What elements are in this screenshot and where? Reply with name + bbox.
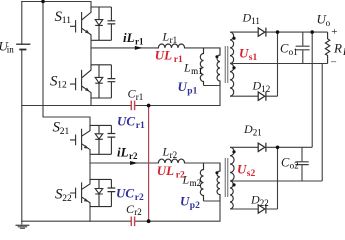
node D21 cathode junction [276, 146, 280, 150]
ground [16, 221, 30, 228]
node iLr2 current arrow [130, 161, 138, 165]
transformer T1 [200, 32, 235, 105]
T2 core [225, 158, 227, 197]
node at bottom rail [147, 219, 151, 223]
T1 core [225, 46, 227, 83]
svg-text:12: 12 [57, 81, 67, 91]
svg-text:m2: m2 [190, 178, 202, 188]
svg-text:U: U [237, 162, 247, 177]
wire ct2 rail [230, 180, 322, 182]
svg-text:+: + [331, 26, 337, 38]
wire Uin rail upper [21, 2, 23, 45]
svg-text:UL: UL [155, 48, 172, 63]
battery Uin [16, 44, 30, 49]
switch cell S21 [70, 125, 115, 154]
switch cell S22 [70, 179, 115, 206]
svg-text:D: D [242, 11, 252, 25]
diode D12 [258, 92, 266, 101]
svg-text:D: D [243, 122, 253, 136]
wire D11 anode [230, 31, 258, 33]
svg-text:p2: p2 [190, 201, 200, 211]
svg-text:r1: r1 [136, 92, 144, 102]
wire iLr2 [90, 162, 220, 164]
svg-text:r2: r2 [134, 207, 142, 217]
transistor Q S21 IGBT [70, 125, 90, 154]
svg-text:22: 22 [260, 198, 269, 208]
svg-text:L: L [162, 30, 170, 44]
svg-text:r1: r1 [170, 35, 178, 45]
wire D12 anode [230, 95, 258, 97]
svg-text:L: L [162, 145, 170, 159]
transformer T2 [200, 147, 235, 221]
svg-text:11: 11 [251, 16, 260, 26]
T2 secondary winding [230, 147, 234, 209]
svg-text:UL: UL [157, 163, 174, 178]
wire Cr1 return wire [22, 105, 220, 107]
switch cell S11 [70, 7, 115, 40]
svg-text:in: in [7, 45, 15, 55]
wire Lm2 bottom / primary return [204, 201, 221, 221]
transistor Q S11 IGBT [70, 7, 91, 40]
T1 secondary winding [230, 32, 234, 96]
svg-text:U: U [239, 46, 249, 61]
wire D11 cathode to load [266, 31, 328, 33]
svg-text:s2: s2 [247, 169, 256, 179]
inductor Lm2 [200, 163, 203, 201]
node iLr1 current arrow [135, 46, 143, 50]
wire Lm1 bottom / primary return [204, 86, 221, 106]
node T1 secondary dot lower [232, 66, 235, 69]
wire Uin rail lower [21, 50, 23, 222]
node T1 primary polarity dot [215, 55, 218, 58]
node D11 cathode junction [276, 30, 280, 34]
svg-text:r1: r1 [135, 36, 144, 46]
wire D21 cathode [266, 146, 312, 148]
capacitor Co1 [302, 32, 304, 63]
inductor Lm1 [200, 48, 203, 86]
svg-text:D: D [250, 193, 260, 207]
wire ct1 / Uo- rail [230, 63, 328, 65]
wire S12 to Cr1 wire [90, 98, 92, 106]
svg-text:12: 12 [261, 84, 270, 94]
node at Cr1 wire [147, 104, 151, 108]
node T2 secondary dot lower [232, 183, 235, 186]
svg-text:UC: UC [116, 186, 134, 201]
wire S21-S22 midpoint [89, 154, 91, 179]
svg-text:r2: r2 [129, 151, 138, 161]
wire red link Cr1-node to bottom rail [148, 106, 150, 222]
svg-text:UC: UC [117, 114, 135, 129]
wire top rail bridge1 [22, 2, 91, 8]
svg-text:iL: iL [123, 30, 135, 45]
svg-text:R: R [333, 40, 342, 55]
svg-text:r1: r1 [136, 121, 145, 131]
svg-text:s1: s1 [249, 53, 258, 63]
svg-text:L: L [183, 61, 191, 75]
svg-text:r2: r2 [135, 193, 144, 203]
svg-text:o: o [326, 18, 331, 28]
svg-text:m1: m1 [191, 66, 203, 76]
node T2 primary polarity dot [215, 171, 218, 174]
T1 primary winding [217, 48, 220, 86]
svg-text:L: L [182, 173, 190, 187]
capacitor Cr2 (red plates) [131, 217, 134, 227]
diode D21 [258, 143, 266, 152]
transistor Q S22 IGBT [70, 179, 90, 206]
switch cell S12 [70, 65, 115, 98]
wire S22 to bottom rail [89, 207, 91, 222]
inductor Lr1 [158, 44, 184, 48]
svg-text:21: 21 [253, 127, 262, 137]
capacitor Co2 [301, 147, 303, 181]
node Uo+ junction [310, 30, 314, 34]
svg-text:o2: o2 [290, 161, 299, 171]
resistor RL [325, 32, 329, 63]
wire D12 cathode bus up to D11 [266, 32, 278, 96]
svg-text:o1: o1 [289, 47, 298, 57]
wire Uo+ bus down to D21 node [311, 32, 313, 147]
transistor Q S12 IGBT [70, 65, 91, 98]
svg-text:11: 11 [62, 16, 71, 26]
diode D11 [258, 28, 266, 37]
svg-text:21: 21 [60, 127, 70, 137]
inductor Lr2 [158, 159, 184, 163]
wire parallel feed to bridge2 [43, 2, 90, 126]
wire D21 anode [230, 146, 258, 148]
output rectifier section [230, 28, 330, 214]
node top-left rail junction [41, 0, 45, 3]
svg-text:r1: r1 [174, 55, 183, 65]
svg-text:iL: iL [117, 145, 129, 160]
diode D22 [258, 205, 266, 214]
T2 primary winding [217, 163, 220, 201]
node T2 secondary dot upper [232, 150, 235, 153]
capacitor Cr1 (red plates) [131, 101, 134, 111]
wire S11-S12 midpoint [90, 40, 92, 65]
svg-text:D: D [252, 79, 262, 93]
svg-text:U: U [180, 194, 190, 209]
wire D22 cathode bus up to D21 [266, 147, 278, 209]
wire bottom rail [22, 220, 220, 222]
node T1 secondary dot upper [232, 37, 235, 40]
svg-text:22: 22 [62, 194, 72, 204]
svg-text:r2: r2 [170, 150, 178, 160]
svg-text:−: − [331, 57, 337, 69]
svg-text:p1: p1 [187, 87, 197, 97]
wire Uo- bus down to ct2 [321, 64, 323, 182]
svg-text:U: U [178, 79, 188, 94]
wire D22 anode [230, 208, 258, 210]
wire iLr1 [91, 47, 220, 49]
